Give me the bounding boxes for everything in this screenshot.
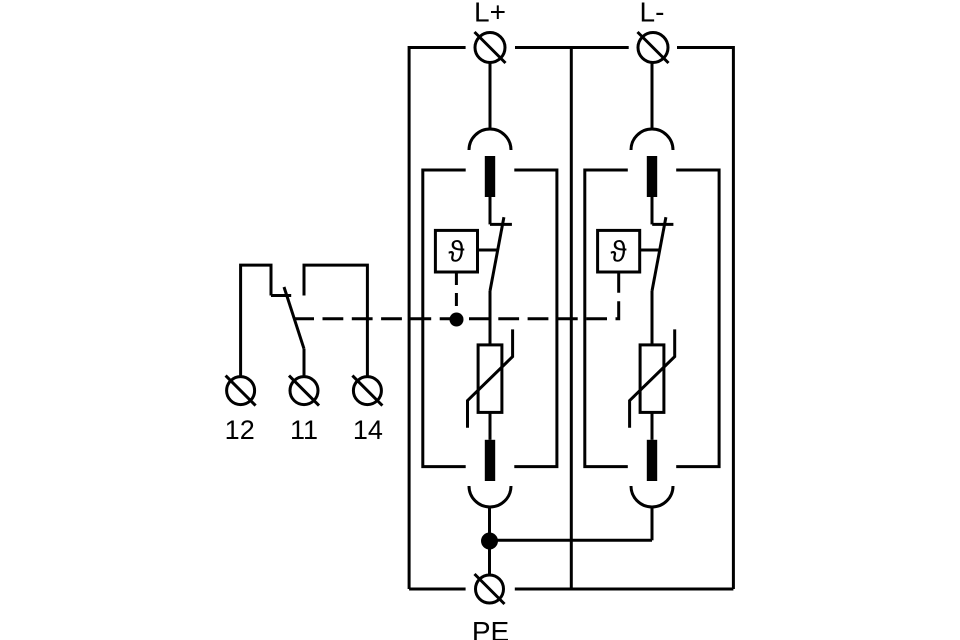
PE junction node xyxy=(481,533,498,550)
svg-text:ϑ: ϑ xyxy=(611,236,627,269)
svg-text:12: 12 xyxy=(225,415,255,445)
wire L- to socket xyxy=(651,63,654,130)
thermal device box right xyxy=(598,230,640,272)
socket arc bottom left xyxy=(469,486,511,507)
thermal device box left xyxy=(435,230,477,272)
svg-text:L-: L- xyxy=(640,0,665,28)
wire L+ to socket xyxy=(489,63,492,130)
remote contact wire 14 xyxy=(304,265,367,377)
center divider wire xyxy=(570,48,573,590)
terminal 11 xyxy=(289,376,319,406)
wire socket right down xyxy=(651,507,654,540)
socket arc bottom right xyxy=(631,486,673,507)
wire blade to varistor right xyxy=(651,291,654,345)
outer enclosure box xyxy=(409,46,733,589)
varistor MOV left xyxy=(468,329,513,427)
switch fixed contact left xyxy=(490,223,512,226)
module boundary box right xyxy=(585,170,719,467)
connector thermal to blade left xyxy=(478,249,499,252)
dashed mechanical linkage line xyxy=(294,272,619,319)
plug pin bar top left xyxy=(485,156,495,197)
svg-text:11: 11 xyxy=(290,415,318,445)
module boundary box left xyxy=(423,170,557,467)
svg-text:ϑ: ϑ xyxy=(448,236,464,269)
varistor MOV right xyxy=(630,329,675,427)
terminal L+ xyxy=(475,32,506,63)
remote contact blade xyxy=(284,287,304,349)
dashed link thermal left xyxy=(455,272,458,314)
switch blade right xyxy=(652,217,666,291)
terminal L- xyxy=(638,32,669,63)
wire blade to varistor xyxy=(489,291,492,345)
wire varistor to pin xyxy=(489,412,492,439)
terminal 12 xyxy=(226,376,256,406)
switch fixed contact right xyxy=(652,223,673,226)
wire socket to PE node xyxy=(488,507,491,536)
svg-text:14: 14 xyxy=(353,415,383,445)
remote contact wire 11 xyxy=(303,349,306,377)
svg-text:L+: L+ xyxy=(474,0,506,28)
connector thermal to blade right xyxy=(640,249,661,252)
wire pin to switch right xyxy=(651,197,654,224)
terminal PE xyxy=(475,574,505,604)
remote contact tick xyxy=(271,294,291,297)
plug pin bar top right xyxy=(647,156,657,197)
svg-text:PE: PE xyxy=(472,616,509,640)
wire PE node to PE terminal xyxy=(488,546,491,575)
remote contact wire 12 xyxy=(241,265,271,377)
socket arc top left xyxy=(469,129,511,150)
wire PE node to L- branch xyxy=(490,539,653,542)
wire pin to switch xyxy=(489,197,492,224)
plug pin bar bottom left xyxy=(485,440,495,481)
wire varistor to pin right xyxy=(651,412,654,439)
terminal 14 xyxy=(352,376,382,406)
socket arc top right xyxy=(631,129,673,150)
plug pin bar bottom right xyxy=(647,440,657,481)
junction dot on dashed link xyxy=(450,313,464,327)
switch blade left xyxy=(490,217,504,291)
